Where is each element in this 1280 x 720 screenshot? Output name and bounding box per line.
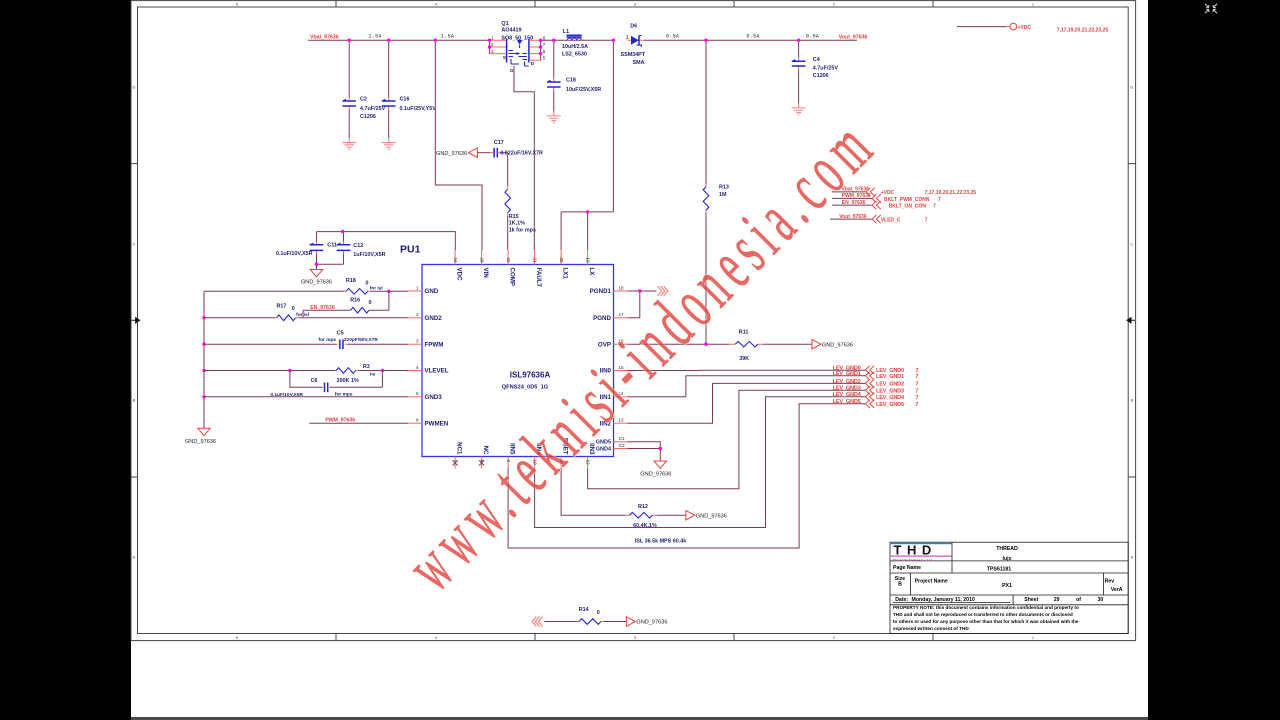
svg-text:1k for mps: 1k for mps — [509, 227, 536, 233]
svg-text:LEV_GND5: LEV_GND5 — [876, 402, 904, 408]
capacitor C18 — [547, 40, 601, 111]
svg-text:to others or used for any purp: to others or used for any purpose other … — [893, 619, 1079, 624]
svg-text:7: 7 — [915, 374, 918, 380]
svg-text:B: B — [898, 581, 902, 587]
svg-text:G1: G1 — [619, 436, 626, 441]
svg-text:0: 0 — [597, 610, 600, 616]
wire pin1 row — [204, 290, 345, 292]
svg-text:R17: R17 — [277, 304, 287, 310]
svg-text:for mps: for mps — [319, 337, 337, 343]
svg-text:7: 7 — [915, 382, 918, 388]
svg-text:30: 30 — [1098, 597, 1104, 603]
svg-text:7: 7 — [925, 218, 928, 224]
svg-text:R18: R18 — [346, 278, 356, 284]
svg-text:7: 7 — [915, 402, 918, 408]
svg-text:G2: G2 — [619, 443, 626, 448]
svg-text:Vout_97636: Vout_97636 — [839, 34, 868, 40]
svg-text:0.5A: 0.5A — [806, 34, 819, 40]
ground GND_97636 under C11 — [301, 270, 332, 286]
wire C11 C12 bottom — [317, 264, 344, 269]
wire pin5 row — [204, 396, 408, 398]
svg-text:LEV_GND1: LEV_GND1 — [833, 371, 861, 377]
resistor R17 — [277, 304, 310, 321]
wire C6 loop — [290, 371, 323, 388]
svg-text:1K,1%: 1K,1% — [509, 221, 525, 227]
svg-text:LEV_GND2: LEV_GND2 — [876, 382, 904, 388]
wire pin3 row — [204, 343, 336, 345]
svg-text:0: 0 — [366, 280, 369, 286]
junction dots on rail — [348, 39, 351, 42]
wire switch node to LX pins — [561, 40, 613, 250]
wire R16 branch — [303, 291, 389, 318]
wire OVP net — [628, 343, 730, 345]
svg-text:1: 1 — [626, 35, 629, 41]
svg-text:D: D — [133, 85, 136, 90]
svg-text:R12: R12 — [638, 504, 648, 510]
wire pin2 row — [204, 317, 275, 319]
svg-text:Rev: Rev — [1105, 578, 1115, 584]
svg-text:expressed written consent of T: expressed written consent of THD — [893, 626, 969, 631]
capacitor C12 — [337, 232, 386, 265]
svg-text:23: 23 — [479, 257, 484, 263]
node LEV_GND ports — [833, 365, 919, 408]
svg-text:C16: C16 — [400, 96, 410, 102]
svg-text:SMA: SMA — [633, 60, 645, 66]
svg-text:LEV_GND2: LEV_GND2 — [833, 379, 861, 385]
svg-text:7: 7 — [933, 204, 936, 210]
node EN_97636 port to BKLT_ON_CON — [832, 200, 936, 210]
svg-text:Sheet: Sheet — [1024, 597, 1038, 603]
svg-text:BKLT_ON_CON: BKLT_ON_CON — [889, 204, 927, 210]
svg-text:0: 0 — [292, 306, 295, 312]
svg-text:19: 19 — [585, 257, 590, 263]
wire RSET net — [561, 469, 625, 516]
svg-text:GND3: GND3 — [425, 394, 443, 401]
svg-text:0.5A: 0.5A — [666, 34, 679, 40]
node GND_97636 port after R12 — [686, 510, 727, 520]
resistor R16 — [350, 298, 371, 313]
svg-text:LEV_GND4: LEV_GND4 — [876, 395, 905, 401]
node Vout_97636 port to VLED_C — [830, 214, 928, 224]
svg-text:1.5A: 1.5A — [441, 34, 454, 40]
wire IIN3 to LEV_GND3 — [588, 390, 866, 489]
ground C2 — [342, 138, 356, 149]
resistor R18 — [346, 278, 383, 294]
svg-text:GND_97636: GND_97636 — [436, 151, 467, 157]
ground GND_97636 under G1 G2 — [640, 461, 671, 477]
svg-text:+VDC: +VDC — [1018, 25, 1032, 31]
ground arrow left of R14 — [532, 617, 542, 627]
svg-text:GND_97636: GND_97636 — [696, 513, 727, 519]
resistor R14 — [544, 607, 626, 624]
svg-text:0.1uF/25V,Y5V: 0.1uF/25V,Y5V — [400, 106, 437, 112]
svg-text:7: 7 — [543, 42, 546, 47]
svg-text:LEV_GND4: LEV_GND4 — [833, 392, 862, 398]
wire PGND1 PGND net — [628, 289, 657, 318]
capacitor C17 — [477, 140, 543, 157]
svg-text:4.7uF/25V: 4.7uF/25V — [360, 106, 386, 112]
svg-text:GND_97636: GND_97636 — [822, 342, 853, 348]
svg-text:C2: C2 — [360, 96, 367, 102]
svg-text:GND2: GND2 — [425, 315, 443, 322]
svg-text:+VDC: +VDC — [881, 190, 895, 196]
wire IIN5 to LEV_GND5 — [508, 404, 865, 548]
svg-text:ISL97636A: ISL97636A — [510, 371, 551, 380]
resistor R11 — [735, 329, 757, 362]
wire Q1 gate to FAULT — [514, 66, 534, 250]
resistor R13 — [703, 40, 729, 343]
svg-text:THD: THD — [894, 543, 937, 558]
wire VIN branch — [435, 40, 482, 250]
svg-text:B: B — [133, 398, 136, 403]
svg-text:3: 3 — [491, 49, 494, 54]
svg-text:C18: C18 — [566, 78, 576, 84]
svg-text:VerA: VerA — [1111, 587, 1123, 593]
svg-text:7,17,19,20,21,22,23,25: 7,17,19,20,21,22,23,25 — [925, 190, 977, 196]
wire left ground bus — [203, 291, 205, 428]
capacitor C11 — [276, 232, 455, 265]
IC right pin stubs — [590, 285, 628, 452]
svg-text:PGND: PGND — [593, 315, 611, 322]
svg-text:Page Name: Page Name — [893, 565, 921, 571]
svg-text:1.5A: 1.5A — [369, 34, 382, 40]
node GND_97636 port after R11 — [812, 339, 853, 349]
svg-text:LEV_GND1: LEV_GND1 — [876, 374, 904, 380]
svg-text:TPS61181: TPS61181 — [987, 567, 1011, 573]
svg-text:C1206: C1206 — [360, 114, 376, 120]
svg-text:EN_97636: EN_97636 — [310, 305, 335, 311]
svg-text:0.022uF/16V,X7R: 0.022uF/16V,X7R — [500, 151, 543, 157]
svg-text:R13: R13 — [719, 184, 729, 190]
svg-text:C12: C12 — [353, 243, 363, 249]
svg-text:R15: R15 — [509, 214, 519, 220]
svg-text:200K 1%: 200K 1% — [337, 378, 359, 384]
wire IIN2 to LEV_GND2 — [628, 383, 866, 423]
svg-text:PWMEN: PWMEN — [425, 420, 449, 427]
svg-text:Vbat_97636: Vbat_97636 — [310, 34, 339, 40]
svg-text:B: B — [1130, 398, 1133, 403]
IC top pin stubs — [453, 250, 595, 287]
svg-text:LX: LX — [588, 268, 595, 277]
svg-text:Q1: Q1 — [501, 21, 508, 27]
svg-text:SSM34PT: SSM34PT — [621, 52, 646, 58]
svg-text:0.1uF/10V,X5R: 0.1uF/10V,X5R — [270, 392, 303, 398]
svg-text:1uF/10V,X5R: 1uF/10V,X5R — [353, 252, 385, 258]
capacitor C5 — [319, 330, 379, 349]
svg-text:PX1: PX1 — [1002, 583, 1012, 589]
svg-text:LEV_GND3: LEV_GND3 — [833, 386, 861, 392]
svg-text:LX1: LX1 — [562, 268, 569, 280]
svg-text:BKLT_PWM_CONN: BKLT_PWM_CONN — [884, 197, 930, 203]
ground C18 — [547, 112, 561, 123]
node +VDC power port — [957, 23, 1108, 33]
svg-text:5: 5 — [416, 391, 419, 396]
wire rail Q1 to L1 — [541, 39, 567, 41]
svg-text:COMP: COMP — [509, 268, 516, 287]
svg-text:A: A — [133, 555, 136, 560]
svg-text:C1206: C1206 — [813, 73, 829, 79]
svg-text:1: 1 — [491, 35, 494, 40]
svg-text:24: 24 — [453, 257, 458, 263]
svg-text:VLEVEL: VLEVEL — [425, 368, 449, 375]
svg-text:of: of — [1076, 597, 1081, 603]
svg-text:PGND1: PGND1 — [590, 288, 612, 295]
svg-text:C: C — [1130, 242, 1133, 247]
ground C16 — [382, 138, 396, 149]
svg-text:PWM_97636: PWM_97636 — [325, 417, 355, 423]
svg-text:18: 18 — [619, 285, 625, 290]
node Vbat_97636 port to +VDC — [832, 187, 976, 197]
svg-text:22: 22 — [506, 257, 511, 263]
svg-text:10uH/2.5A: 10uH/2.5A — [562, 44, 588, 50]
node PWM_97636 wire pin6 — [309, 417, 408, 423]
capacitor C6 — [270, 378, 352, 398]
svg-text:GND_97636: GND_97636 — [636, 620, 667, 626]
svg-text:VLED_C: VLED_C — [881, 218, 901, 224]
svg-text:PU1: PU1 — [400, 244, 421, 256]
IC PU1 ISL97636A — [400, 244, 614, 457]
svg-text:ns: ns — [370, 372, 376, 377]
svg-text:R3: R3 — [363, 364, 370, 370]
svg-text:R16: R16 — [350, 298, 360, 304]
svg-text:Thread Technology Co.,Ltd: Thread Technology Co.,Ltd — [892, 558, 932, 562]
svg-text:1: 1 — [416, 285, 419, 290]
svg-text:ISL 36.5k MPS 60.4k: ISL 36.5k MPS 60.4k — [635, 538, 686, 544]
inductor L1 — [562, 29, 613, 57]
title block — [890, 542, 1128, 633]
svg-text:FPWM: FPWM — [425, 341, 444, 348]
svg-text:2: 2 — [491, 42, 494, 47]
wire pin4 row — [204, 370, 335, 372]
svg-text:THREAD: THREAD — [996, 546, 1018, 552]
svg-text:LEV_GND5: LEV_GND5 — [833, 399, 861, 405]
wire IIN0 to LEV_GND0 — [628, 369, 866, 371]
svg-text:PROPERTY NOTE: this document c: PROPERTY NOTE: this document contains in… — [893, 605, 1079, 610]
svg-text:1M: 1M — [719, 192, 727, 198]
diode D6 — [621, 24, 646, 66]
svg-text:10uF/25V,X5R: 10uF/25V,X5R — [566, 87, 601, 93]
svg-text:D6: D6 — [630, 24, 637, 30]
svg-text:GND: GND — [425, 288, 439, 295]
wire GND5 GND4 to ground — [628, 442, 663, 461]
svg-text:GND_97636: GND_97636 — [640, 471, 671, 477]
svg-text:60.4K,1%: 60.4K,1% — [633, 523, 657, 529]
ground GND_97636 bus — [185, 428, 216, 445]
IC left pin stubs — [408, 285, 449, 427]
transistor Q1 — [490, 21, 546, 74]
capacitor C2 — [342, 40, 385, 138]
svg-text:C11: C11 — [327, 242, 337, 248]
svg-text:D: D — [531, 61, 535, 67]
svg-text:Project Name: Project Name — [915, 578, 948, 584]
svg-text:LEV_GND3: LEV_GND3 — [876, 388, 904, 394]
svg-text:0: 0 — [369, 300, 372, 306]
svg-text:7: 7 — [915, 395, 918, 401]
svg-text:L1: L1 — [563, 29, 569, 35]
watermark — [391, 103, 892, 606]
svg-text:for isl: for isl — [296, 312, 309, 318]
svg-text:20: 20 — [559, 257, 564, 263]
svg-text:7,17,19,20,21,22,23,25: 7,17,19,20,21,22,23,25 — [1057, 27, 1109, 33]
svg-text:FAULT: FAULT — [535, 268, 542, 288]
resistor R15 — [505, 153, 536, 250]
svg-text:for isl: for isl — [370, 286, 383, 292]
capacitor C16 — [382, 40, 436, 138]
svg-text:8: 8 — [543, 35, 546, 40]
svg-text:C: C — [133, 242, 136, 247]
svg-text:2: 2 — [416, 312, 419, 317]
svg-text:R14: R14 — [579, 607, 589, 613]
svg-text:NC1: NC1 — [456, 442, 463, 455]
node GND_97636 port after R14 — [626, 617, 667, 627]
svg-text:GND_97636: GND_97636 — [301, 279, 332, 285]
ground PGND arrow — [658, 286, 668, 296]
svg-text:5: 5 — [543, 55, 546, 60]
IC bottom pin stubs — [453, 438, 596, 469]
ground C4 — [792, 104, 806, 115]
resistor R3 — [336, 364, 376, 384]
svg-text:3: 3 — [416, 339, 419, 344]
capacitor C4 — [792, 40, 839, 103]
svg-text:VDC: VDC — [456, 268, 463, 282]
svg-text:D: D — [1130, 85, 1133, 90]
svg-text:C4: C4 — [813, 57, 820, 63]
node PWM_97636 port to BKLT_PWM_CONN — [832, 193, 941, 203]
svg-text:G: G — [510, 68, 514, 74]
svg-text:A: A — [1130, 555, 1133, 560]
svg-text:R11: R11 — [739, 329, 749, 335]
svg-text:220pF/50V,X7R: 220pF/50V,X7R — [344, 337, 378, 343]
svg-text:0.1uF/10V,X5R: 0.1uF/10V,X5R — [276, 251, 313, 257]
svg-text:VIN: VIN — [482, 268, 489, 279]
svg-text:4.7uF/25V: 4.7uF/25V — [813, 66, 839, 72]
svg-text:6: 6 — [543, 49, 546, 54]
svg-text:lujx: lujx — [1003, 556, 1012, 562]
svg-text:7: 7 — [938, 197, 941, 203]
svg-text:29: 29 — [1054, 597, 1060, 603]
svg-text:4: 4 — [416, 365, 419, 370]
node GND_97636 port at C17 — [436, 148, 477, 158]
svg-text:QFNS24_0D5_1G: QFNS24_0D5_1G — [502, 385, 549, 391]
svg-text:7: 7 — [915, 388, 918, 394]
svg-text:C17: C17 — [494, 140, 504, 146]
svg-text:C5: C5 — [337, 330, 344, 336]
wire top rail right — [644, 39, 857, 41]
svg-text:GND_97636: GND_97636 — [185, 439, 216, 445]
svg-text:6: 6 — [416, 418, 419, 423]
svg-text:THD and shall not be reproduce: THD and shall not be reproduced or trans… — [893, 612, 1073, 617]
svg-text:AO4419: AO4419 — [501, 28, 521, 34]
svg-text:0.5A: 0.5A — [747, 34, 760, 40]
svg-text:LS2_6530: LS2_6530 — [562, 51, 587, 57]
resistor R12 — [630, 504, 657, 529]
svg-text:21: 21 — [532, 257, 537, 263]
svg-text:39K: 39K — [739, 356, 749, 362]
wire IIN1 to LEV_GND1 — [628, 376, 866, 397]
svg-text:C6: C6 — [311, 378, 318, 384]
wire top rail left — [308, 39, 490, 41]
wire IIN4 to LEV_GND4 — [535, 397, 866, 528]
